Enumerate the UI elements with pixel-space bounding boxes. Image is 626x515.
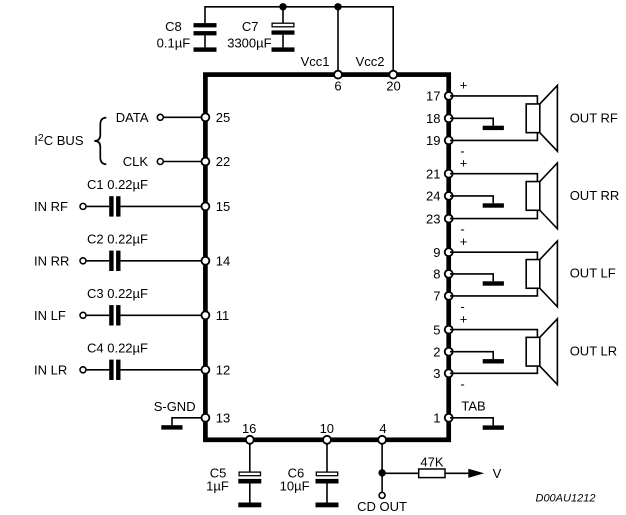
wire pin 17 to speaker RF <box>450 96 537 104</box>
ground speaker RR <box>483 203 504 207</box>
terminal IN RF <box>80 203 86 209</box>
junction above pin 6 <box>334 3 341 10</box>
wire pin 8 to ground <box>450 274 493 281</box>
wire pin 5 to speaker LR <box>450 330 537 338</box>
svg-text:21: 21 <box>426 166 440 181</box>
wire DATA to pin 25 <box>164 116 204 118</box>
svg-text:14: 14 <box>216 254 230 269</box>
svg-text:TAB: TAB <box>461 398 485 413</box>
ground speaker LR <box>483 359 504 363</box>
wire IN RR to C2 <box>87 260 110 262</box>
svg-text:23: 23 <box>426 211 440 226</box>
wire pin 7 to speaker LF <box>450 288 537 296</box>
svg-text:15: 15 <box>216 199 230 214</box>
capacitor C7 (electrolytic) <box>272 23 295 47</box>
svg-text:0.1µF: 0.1µF <box>157 35 191 50</box>
svg-text:C8: C8 <box>165 19 182 34</box>
wire CLK to pin 22 <box>164 161 204 163</box>
svg-text:13: 13 <box>216 411 230 426</box>
wire pin 4 down to CD OUT <box>381 444 383 492</box>
svg-text:+: + <box>460 234 468 249</box>
svg-text:D00AU1212: D00AU1212 <box>536 493 596 505</box>
wire pin 21 to speaker RR <box>450 174 537 182</box>
svg-text:47K: 47K <box>420 454 443 469</box>
svg-text:Vcc2: Vcc2 <box>356 54 385 69</box>
svg-text:IN RR: IN RR <box>34 254 69 269</box>
speaker OUT RF <box>526 85 557 151</box>
wire IN LR to C4 <box>87 369 110 371</box>
ground below C5 <box>238 503 261 508</box>
svg-text:3300µF: 3300µF <box>227 35 271 50</box>
wire pin 19 to speaker RF <box>450 133 537 141</box>
wire Vcc top rail <box>205 7 393 71</box>
pin 10 <box>320 421 334 444</box>
svg-text:18: 18 <box>426 111 440 126</box>
svg-text:20: 20 <box>386 78 400 93</box>
brace for I2C bus <box>94 118 106 165</box>
svg-text:11: 11 <box>216 308 230 323</box>
junction pin 4 branch <box>378 469 385 476</box>
ground S-GND <box>161 425 182 429</box>
wire IN RF to C1 <box>87 205 110 207</box>
svg-text:1µF: 1µF <box>206 478 229 493</box>
wire pin 18 to ground <box>450 118 493 125</box>
speaker OUT LR <box>526 319 557 385</box>
pin 5 <box>433 322 452 337</box>
terminal CLK <box>157 159 163 165</box>
svg-text:C1 0.22µF: C1 0.22µF <box>87 177 148 192</box>
pin 16 <box>242 421 256 444</box>
wire C4 to pin 12 <box>121 369 205 371</box>
svg-text:DATA: DATA <box>116 110 149 125</box>
svg-text:10µF: 10µF <box>280 478 310 493</box>
ground below C7 <box>272 47 295 51</box>
pin 23 <box>426 211 453 226</box>
svg-text:Vcc1: Vcc1 <box>301 54 330 69</box>
wire pin 24 to ground <box>450 196 493 203</box>
svg-text:+: + <box>460 78 468 93</box>
svg-text:2: 2 <box>433 344 440 359</box>
capacitor C5 (electrolytic) <box>238 472 261 502</box>
terminal CD OUT <box>379 492 385 498</box>
pin 24 <box>426 189 453 204</box>
wire pin 2 to ground <box>450 352 493 359</box>
svg-text:CD OUT: CD OUT <box>357 499 407 514</box>
capacitor C2 <box>109 251 120 271</box>
pin 21 <box>426 166 453 181</box>
svg-text:-: - <box>460 376 464 391</box>
svg-text:IN LR: IN LR <box>34 363 67 378</box>
pin 12 <box>201 363 230 378</box>
wire IN LF to C3 <box>87 314 110 316</box>
svg-text:25: 25 <box>216 110 230 125</box>
capacitor C1 <box>109 196 120 216</box>
svg-text:4: 4 <box>379 421 386 436</box>
wire pin 9 to speaker LF <box>450 252 537 259</box>
svg-text:IN LF: IN LF <box>34 308 66 323</box>
wire pin 1 to ground <box>450 418 493 426</box>
svg-text:10: 10 <box>320 421 334 436</box>
svg-text:CLK: CLK <box>123 154 149 169</box>
pin 9 <box>433 245 452 260</box>
pin 14 <box>201 254 230 269</box>
wire C1 to pin 15 <box>121 205 205 207</box>
svg-text:S-GND: S-GND <box>154 399 196 414</box>
wire pin 6 to rail <box>337 7 339 71</box>
ground below C8 <box>194 47 217 51</box>
resistor R1 47K <box>419 469 445 478</box>
svg-text:C2 0.22µF: C2 0.22µF <box>87 232 148 247</box>
svg-text:+: + <box>460 311 468 326</box>
capacitor C6 (electrolytic) <box>316 472 339 502</box>
wire C3 to pin 11 <box>121 314 205 316</box>
pin 1 <box>433 410 452 425</box>
pin 25 <box>201 110 230 125</box>
svg-text:OUT RF: OUT RF <box>570 110 618 125</box>
speaker OUT LF <box>526 241 557 307</box>
arrow to V <box>468 469 484 478</box>
pin 20 <box>386 71 400 94</box>
svg-text:V: V <box>493 466 502 481</box>
pin 11 <box>201 308 229 323</box>
svg-text:C4 0.22µF: C4 0.22µF <box>87 341 148 356</box>
op-amp U1 (quad amplifier IC body) <box>205 75 448 440</box>
svg-text:22: 22 <box>216 154 230 169</box>
svg-text:C3 0.22µF: C3 0.22µF <box>87 286 148 301</box>
svg-text:6: 6 <box>334 78 341 93</box>
value label C5 1uF <box>206 466 229 494</box>
svg-text:1: 1 <box>433 410 440 425</box>
ground TAB <box>483 425 504 429</box>
svg-text:8: 8 <box>433 267 440 282</box>
wire pin 23 to speaker RR <box>450 210 537 218</box>
pin 17 <box>426 89 453 104</box>
ground speaker RF <box>483 126 504 130</box>
svg-text:IN RF: IN RF <box>34 199 68 214</box>
junction above C7 <box>279 3 286 10</box>
wire resistor to arrow <box>445 472 470 474</box>
speaker OUT RR <box>526 163 557 229</box>
svg-text:12: 12 <box>216 363 230 378</box>
ground speaker LF <box>483 281 504 285</box>
wire junction to resistor <box>382 472 419 474</box>
capacitor C4 <box>109 360 120 380</box>
capacitor C3 <box>109 305 120 325</box>
wire C2 to pin 14 <box>121 260 205 262</box>
wire pin 13 to ground <box>172 418 204 425</box>
wire C7 to rail <box>282 7 284 23</box>
svg-text:5: 5 <box>433 322 440 337</box>
svg-text:OUT RR: OUT RR <box>570 188 620 203</box>
svg-text:C7: C7 <box>242 19 259 34</box>
wire pin 10 to C6 <box>326 444 328 472</box>
pin 6 <box>334 71 342 94</box>
wire pin 3 to speaker LR <box>450 366 537 373</box>
pin 3 <box>433 366 452 381</box>
wire pin 16 to C5 <box>249 444 251 472</box>
value label C8 0.1uF <box>157 19 191 50</box>
pin 2 <box>433 344 452 359</box>
terminal DATA <box>157 114 163 120</box>
terminal IN LF <box>80 312 86 318</box>
svg-text:OUT LR: OUT LR <box>570 343 617 358</box>
pin 4 <box>378 421 386 444</box>
value label C6 10uF <box>280 466 310 494</box>
terminal IN LR <box>80 367 86 373</box>
svg-text:17: 17 <box>426 89 440 104</box>
svg-text:+: + <box>460 155 468 170</box>
svg-text:7: 7 <box>433 289 440 304</box>
terminal IN RR <box>80 258 86 264</box>
pin 18 <box>426 111 453 126</box>
capacitor C8 <box>194 23 217 47</box>
pin 13 <box>201 411 230 426</box>
svg-text:19: 19 <box>426 133 440 148</box>
ground below C6 <box>316 503 339 508</box>
svg-text:3: 3 <box>433 366 440 381</box>
svg-text:16: 16 <box>242 421 256 436</box>
pin 8 <box>433 267 452 282</box>
svg-text:24: 24 <box>426 189 440 204</box>
svg-text:9: 9 <box>433 245 440 260</box>
pin 19 <box>426 133 453 148</box>
pin 15 <box>201 199 230 214</box>
pin 22 <box>201 154 230 169</box>
svg-text:OUT LF: OUT LF <box>570 265 616 280</box>
value label C7 3300uF <box>227 19 271 50</box>
pin 7 <box>433 289 452 304</box>
